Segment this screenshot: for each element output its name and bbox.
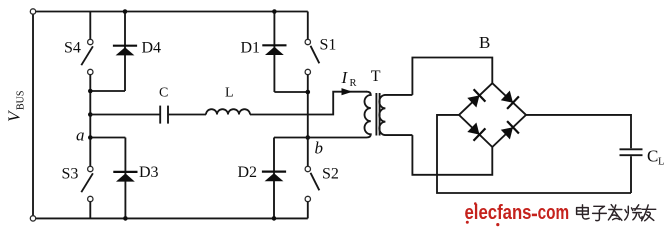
wire right leg lower stub bbox=[307, 202, 309, 219]
wire left leg lower stub bbox=[89, 202, 91, 219]
inductor L bbox=[206, 109, 250, 114]
capacitor C bbox=[160, 106, 168, 124]
watermark chinese char dian bbox=[577, 205, 589, 219]
current arrow I_R bbox=[342, 88, 353, 95]
node a junction dot resonant tap bbox=[88, 112, 93, 117]
watermark chinese char fa bbox=[608, 205, 621, 221]
diode D3 bbox=[113, 172, 137, 182]
node b junction dot bbox=[306, 135, 311, 140]
junction dot D1 top bbox=[272, 9, 277, 14]
svg-text:C: C bbox=[159, 86, 168, 101]
wire secondary top to bridge bbox=[412, 58, 492, 95]
watermark chinese char you bbox=[642, 205, 656, 221]
watermark chinese char zi bbox=[593, 206, 607, 220]
svg-text:BUS: BUS bbox=[16, 91, 27, 110]
svg-text:a: a bbox=[76, 126, 85, 145]
junction dot D4 bottom bbox=[88, 89, 93, 94]
svg-text:D2: D2 bbox=[238, 164, 258, 181]
wire capacitor to inductor bbox=[169, 114, 206, 116]
svg-text:S2: S2 bbox=[322, 166, 339, 183]
node VBUS- terminal circle bbox=[30, 216, 35, 221]
switch S1 bbox=[305, 39, 319, 74]
svg-text:D4: D4 bbox=[142, 40, 162, 57]
wire right leg middle bbox=[307, 75, 309, 167]
bridge diode bottom-right bbox=[501, 121, 519, 139]
svg-text:D3: D3 bbox=[139, 164, 159, 181]
switch S3 bbox=[81, 166, 93, 201]
diode D1 bbox=[262, 45, 286, 55]
capacitor C_L bbox=[620, 149, 643, 155]
wire bottom rail bbox=[36, 217, 308, 219]
wire top rail bbox=[36, 11, 308, 13]
wire C_L bottom bbox=[630, 156, 632, 193]
svg-text:S1: S1 bbox=[320, 37, 337, 54]
bridge diode top-right bbox=[501, 91, 519, 109]
svg-text:S3: S3 bbox=[62, 166, 79, 183]
svg-text:elecfans: elecfans bbox=[465, 202, 532, 224]
wire left leg middle bbox=[89, 75, 91, 167]
svg-text:T: T bbox=[371, 68, 381, 85]
wire D2 vertical bbox=[273, 138, 275, 219]
wire bridge negative output loop bbox=[437, 115, 631, 193]
junction dot D3 bottom bbox=[123, 216, 128, 221]
transformer T core lines bbox=[376, 93, 379, 136]
wire inductor to primary with riser bbox=[250, 92, 367, 115]
bridge diode bottom-left bbox=[467, 123, 485, 141]
switch S4 bbox=[81, 39, 93, 74]
bridge rectifier B diamond bbox=[459, 83, 526, 147]
wire V_BUS left vertical bbox=[32, 14, 34, 216]
watermark elecfans logo bbox=[465, 202, 570, 226]
diode D2 bbox=[262, 172, 286, 182]
junction dot D2 bottom bbox=[272, 216, 277, 221]
wire bridge positive output to C_L bbox=[526, 115, 631, 148]
transformer T primary winding bbox=[274, 92, 371, 138]
wire D4 branch bbox=[90, 12, 125, 92]
wire resonant branch to capacitor bbox=[90, 114, 159, 116]
svg-text:C: C bbox=[647, 147, 658, 166]
junction dot D4 top bbox=[123, 9, 128, 14]
wire left leg upper stub bbox=[89, 12, 91, 40]
svg-text:I: I bbox=[341, 68, 349, 87]
node a junction dot bbox=[88, 135, 93, 140]
wire D1 branch bbox=[274, 12, 307, 93]
svg-text:R: R bbox=[350, 78, 357, 89]
junction dot D1 bottom bbox=[306, 90, 311, 95]
svg-text:B: B bbox=[479, 33, 490, 52]
wire D3 vertical bbox=[124, 138, 126, 219]
transformer T secondary winding bbox=[379, 95, 412, 135]
node a wire to D3 bbox=[90, 137, 125, 139]
label I_R bbox=[341, 68, 357, 89]
svg-text:L: L bbox=[225, 86, 234, 101]
svg-text:S4: S4 bbox=[64, 40, 81, 57]
switch S2 bbox=[305, 166, 319, 201]
bridge diode top-left bbox=[467, 89, 485, 107]
svg-text:D1: D1 bbox=[241, 40, 261, 57]
label C_L bbox=[647, 147, 664, 168]
diode D4 bbox=[113, 46, 137, 56]
wire right leg upper stub bbox=[307, 12, 309, 40]
wire secondary bottom to bridge bbox=[412, 135, 492, 175]
label V_BUS bbox=[5, 91, 27, 122]
svg-text:com: com bbox=[538, 202, 570, 224]
svg-text:b: b bbox=[315, 139, 324, 158]
node VBUS+ terminal circle bbox=[30, 9, 35, 14]
watermark chinese char shao bbox=[625, 205, 642, 220]
svg-text:L: L bbox=[658, 157, 664, 168]
